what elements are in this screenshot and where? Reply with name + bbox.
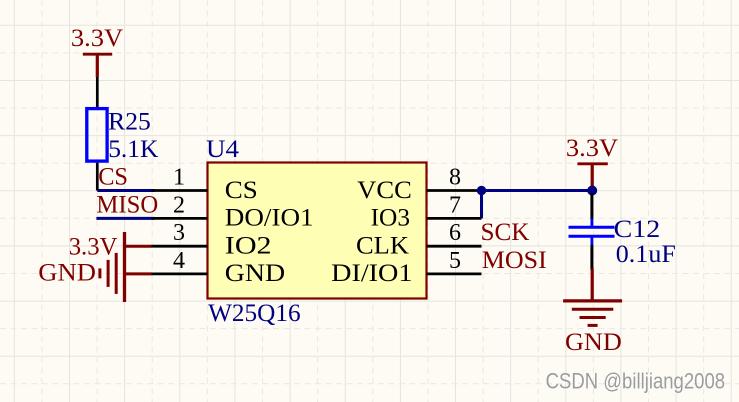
svg-text:2: 2: [173, 192, 185, 218]
svg-text:3.3V: 3.3V: [71, 23, 124, 52]
svg-text:U4: U4: [206, 134, 239, 163]
svg-text:CS: CS: [225, 175, 258, 204]
svg-text:7: 7: [449, 192, 461, 218]
svg-text:3: 3: [173, 220, 185, 246]
svg-text:DO/IO1: DO/IO1: [225, 203, 314, 232]
svg-text:8: 8: [449, 164, 461, 190]
svg-text:IO3: IO3: [371, 203, 410, 232]
svg-text:6: 6: [449, 220, 461, 246]
svg-text:R25: R25: [108, 106, 151, 135]
svg-text:GND: GND: [565, 327, 622, 356]
svg-text:0.1uF: 0.1uF: [616, 239, 676, 268]
svg-text:4: 4: [173, 248, 185, 274]
svg-text:MISO: MISO: [96, 189, 158, 218]
svg-text:1: 1: [173, 164, 185, 190]
svg-text:CSDN @billjiang2008: CSDN @billjiang2008: [546, 368, 726, 393]
svg-text:VCC: VCC: [357, 175, 412, 204]
svg-text:DI/IO1: DI/IO1: [331, 258, 412, 287]
svg-text:IO2: IO2: [225, 231, 272, 260]
svg-text:GND: GND: [225, 258, 285, 287]
svg-text:5: 5: [449, 248, 461, 274]
svg-text:MOSI: MOSI: [482, 245, 547, 274]
svg-text:5.1K: 5.1K: [108, 134, 159, 163]
svg-text:SCK: SCK: [481, 217, 531, 246]
svg-text:W25Q16: W25Q16: [208, 298, 301, 327]
svg-text:3.3V: 3.3V: [566, 133, 619, 162]
svg-text:3.3V: 3.3V: [69, 231, 118, 260]
svg-text:GND: GND: [38, 257, 96, 286]
svg-text:CLK: CLK: [356, 231, 410, 260]
svg-text:CS: CS: [98, 162, 128, 191]
